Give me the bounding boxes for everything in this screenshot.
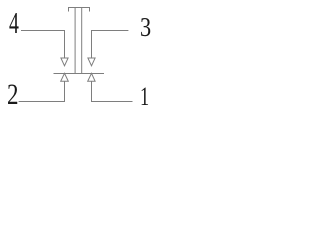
pin label 2 [7, 81, 19, 110]
wire pin 3 [92, 31, 129, 58]
pin label 1 [140, 83, 149, 110]
wire pin 4 [21, 31, 65, 58]
arrow pin 1 [88, 73, 95, 81]
component stub top cap [69, 8, 90, 12]
wire pin 1 [92, 81, 133, 101]
component stub right lead [81, 8, 83, 74]
arrow pin 4 [61, 58, 68, 66]
busbar [54, 73, 105, 75]
component stub left lead [74, 8, 76, 74]
arrow pin 2 [61, 73, 69, 81]
arrow pin 3 [88, 58, 95, 66]
pin label 3 [140, 13, 151, 41]
wire pin 2 [19, 81, 65, 101]
pin label 4 [9, 8, 19, 39]
